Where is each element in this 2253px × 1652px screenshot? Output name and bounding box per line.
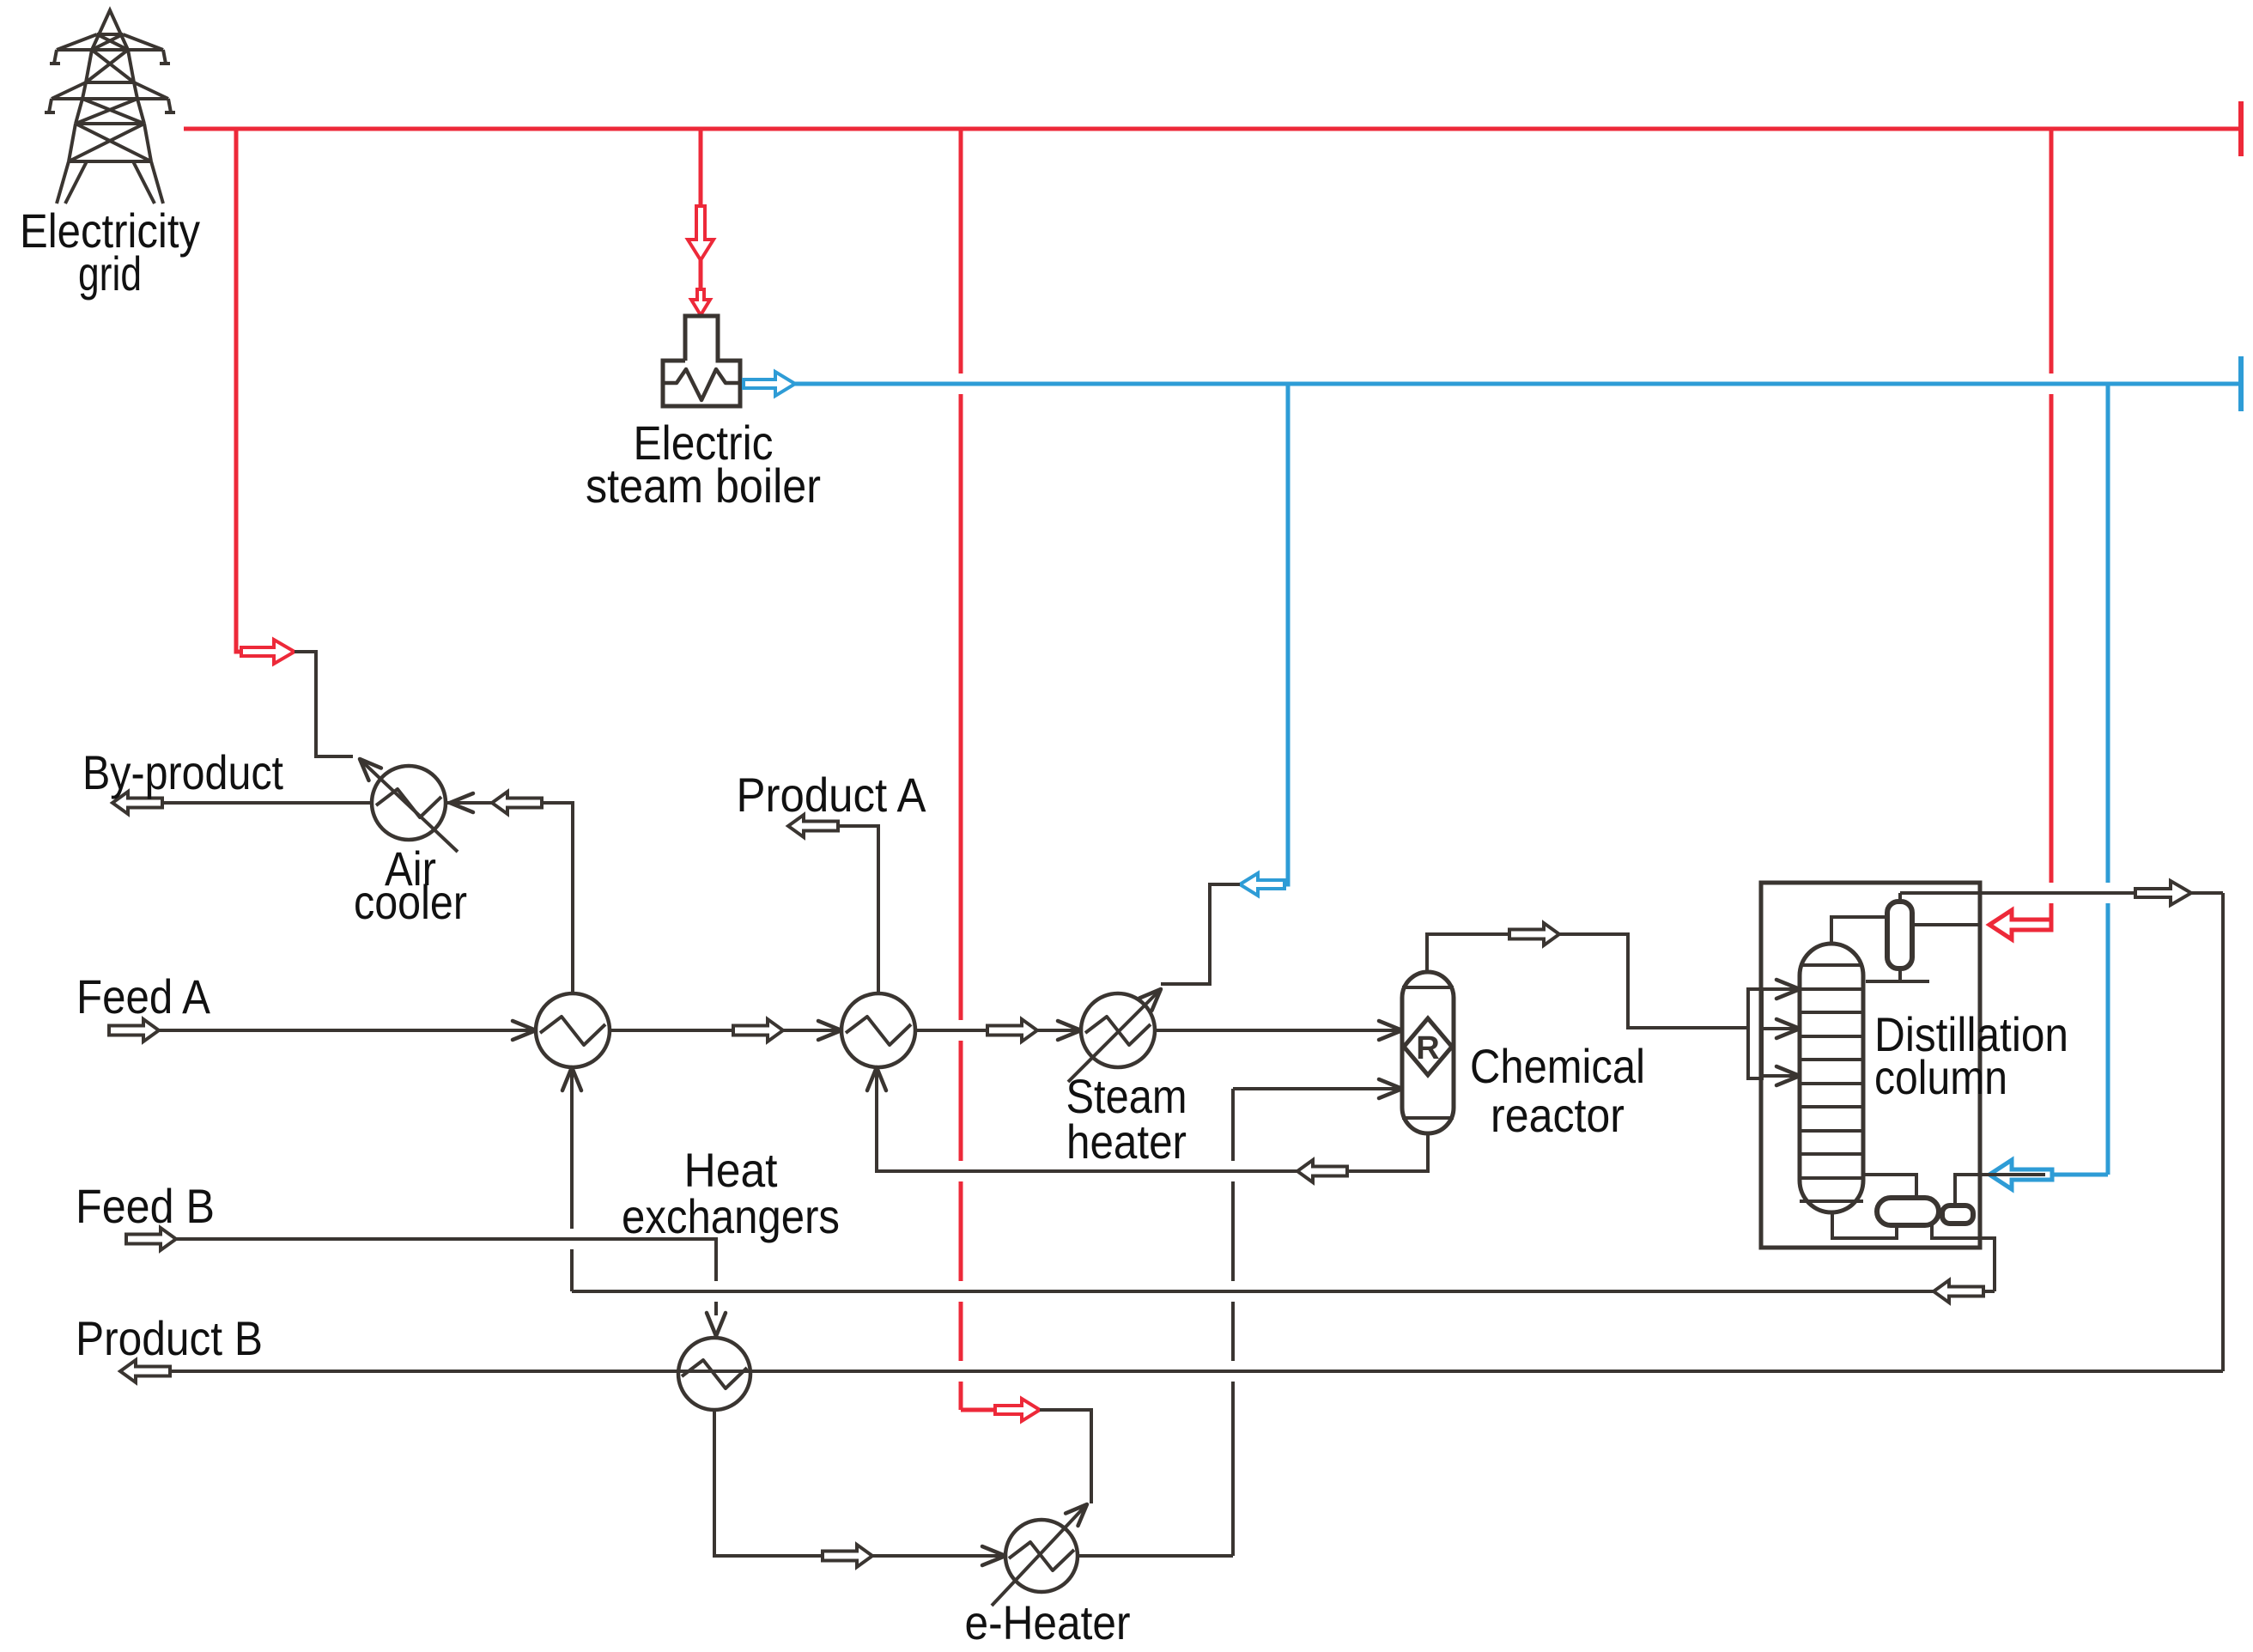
e-Heater diagonal	[992, 1506, 1085, 1606]
wire into e-Heater	[872, 1554, 1005, 1558]
arrow Product B outlet	[120, 1360, 170, 1382]
wire reactor overhead to column	[1427, 934, 1748, 1028]
red arrow into air cooler feed	[241, 640, 295, 664]
svg-text:Feed B: Feed B	[76, 1179, 215, 1233]
wire e-Heater outlet	[1078, 1554, 1233, 1558]
red bus right terminator	[2238, 101, 2244, 156]
wire red boiler drop segment	[699, 260, 703, 290]
wire condenser top to distillate	[1898, 893, 1902, 902]
wire blue branch to reboiler	[2106, 384, 2110, 883]
wire Product B line	[168, 1370, 2223, 1373]
blue arrow boiler steam outlet	[744, 372, 795, 396]
wire HX1 top to air cooler	[537, 803, 573, 993]
svg-text:heater: heater	[1066, 1114, 1187, 1169]
wire reboiler to column bottom	[1832, 1212, 1897, 1238]
e-Heater diagonal arrowhead	[1066, 1504, 1087, 1526]
arrow Product A outlet	[788, 815, 838, 837]
arrow on reactor bottoms wire	[1297, 1160, 1347, 1182]
wire Feed A to HX1	[159, 1029, 536, 1032]
arrow on distillate wire	[2135, 881, 2191, 905]
wire Feed B drop segment	[714, 1302, 718, 1315]
svg-text:Product B: Product B	[76, 1311, 263, 1365]
wire column top to condenser	[1831, 917, 1887, 944]
wire condenser to red arrow	[1912, 923, 1982, 926]
steam heater SH	[1081, 993, 1155, 1067]
svg-text:cooler: cooler	[354, 875, 467, 929]
wire air cooler to By-product	[158, 801, 371, 805]
wire red branch to electric steam boiler	[699, 129, 703, 207]
arrowhead into reactor feed B	[1379, 1079, 1402, 1098]
wire HX3 to e-Heater	[714, 1410, 821, 1556]
air cooler AC	[372, 766, 446, 840]
arrow By-product outlet	[112, 792, 162, 814]
arrowhead into steam heater	[1058, 1021, 1081, 1040]
wire into air cooler	[446, 801, 492, 805]
arrowhead into HX1	[513, 1021, 536, 1040]
steam heater diagonal	[1068, 993, 1157, 1082]
wire HX1 riser	[570, 1249, 574, 1291]
wire distillate overhead	[1900, 891, 2223, 895]
wire red electricity bus	[184, 127, 2241, 131]
svg-text:e-Heater: e-Heater	[965, 1595, 1131, 1649]
wire distillate downcomer	[2221, 893, 2225, 1371]
wire column to reboiler	[1863, 1175, 1916, 1198]
blue arrow into reboiler line	[1989, 1160, 2052, 1189]
wire steam heater to blue arrow	[1161, 884, 1240, 984]
red arrow 2 down into boiler	[691, 289, 710, 315]
wire blue steam bus	[795, 382, 2241, 386]
distillation column boundary box	[1761, 883, 1980, 1248]
wire e-Heater riser to reactor	[1231, 1382, 1235, 1556]
arrow Feed A inlet	[109, 1019, 159, 1042]
steam heater diagonal arrowhead	[1139, 989, 1161, 1011]
wire reactor bottoms to HX2	[877, 1069, 1428, 1171]
wire bottoms from reboiler corner	[1983, 1290, 1995, 1293]
reboiler vapor section	[1942, 1206, 1973, 1224]
svg-text:steam boiler: steam boiler	[586, 459, 821, 513]
arrow on air cooler feed	[492, 792, 542, 814]
arrow on wire HX1-HX2	[733, 1019, 783, 1042]
wire bottoms to HX1 riser	[572, 1290, 1934, 1293]
svg-text:reactor: reactor	[1491, 1088, 1624, 1142]
wire steam to reboiler	[1955, 1175, 2045, 1206]
distillation column vessel with trays	[1800, 944, 1863, 1212]
wire HX2 to steam heater	[915, 1029, 1081, 1032]
blue arrow into steam heater line	[1240, 873, 1284, 896]
heat exchanger HX1	[536, 993, 610, 1067]
column feed arrows	[1762, 987, 1796, 991]
heat exchanger HX3	[678, 1338, 750, 1410]
reactor diamond R	[1404, 1018, 1452, 1075]
arrowhead down into HX3	[707, 1313, 726, 1336]
wire red branch to air cooler	[236, 129, 241, 652]
arrowhead into e-Heater	[982, 1546, 1005, 1565]
condenser vessel	[1887, 902, 1912, 969]
wire air cooler electric elbow	[295, 652, 353, 756]
svg-text:exchangers: exchangers	[622, 1189, 840, 1243]
electric steam boiler icon	[663, 316, 740, 406]
svg-text:R: R	[1416, 1030, 1439, 1066]
column feed header	[1748, 989, 1762, 1078]
wire steam heater to reactor	[1155, 1029, 1402, 1032]
e-Heater EH	[1005, 1520, 1078, 1592]
arrow on wire HX3-eHeater	[823, 1545, 872, 1567]
arrowhead into air cooler	[450, 793, 473, 812]
svg-text:column: column	[1874, 1050, 2007, 1104]
wire red branch to column condenser	[2050, 129, 2054, 374]
wire e-Heater power connection	[1040, 1410, 1091, 1503]
electricity grid pylon icon	[92, 10, 128, 50]
heat exchanger HX2	[841, 993, 915, 1067]
arrow on wire HX2-steam heater	[987, 1019, 1037, 1042]
svg-text:Chemical: Chemical	[1470, 1039, 1645, 1093]
wire Feed B to HX3	[176, 1239, 716, 1281]
arrow on bottoms wire	[1934, 1280, 1983, 1303]
wire condenser bottom stub	[1898, 969, 1902, 981]
wire reboiler bottoms outlet	[1932, 1225, 1995, 1291]
arrowhead up into HX2	[867, 1067, 886, 1090]
wire blue branch to steam heater	[1278, 384, 1288, 884]
arrowhead into HX2	[818, 1021, 841, 1040]
arrowhead into reactor feed A	[1379, 1021, 1402, 1040]
reboiler main body	[1877, 1198, 1939, 1225]
chemical reactor vessel	[1402, 972, 1454, 1133]
red arrow 1 down to boiler	[688, 206, 714, 260]
svg-text:grid: grid	[78, 246, 142, 301]
wire HX1 to HX2	[610, 1029, 841, 1032]
red arrow into condenser	[1989, 910, 2051, 939]
arrow Feed B inlet	[126, 1228, 176, 1250]
wire red branch to e-Heater	[959, 129, 963, 374]
svg-text:Product A: Product A	[737, 768, 927, 822]
wire HX2 to Product A	[837, 826, 878, 993]
arrowhead up into HX1	[562, 1067, 581, 1090]
svg-text:By-product: By-product	[82, 745, 283, 799]
blue bus right terminator	[2238, 356, 2244, 411]
arrow on reactor overhead	[1509, 923, 1559, 945]
svg-text:Feed A: Feed A	[76, 969, 211, 1023]
red arrow to e-Heater	[995, 1399, 1040, 1421]
air cooler diagonal	[363, 762, 458, 852]
air cooler diagonal arrowhead	[360, 759, 381, 780]
